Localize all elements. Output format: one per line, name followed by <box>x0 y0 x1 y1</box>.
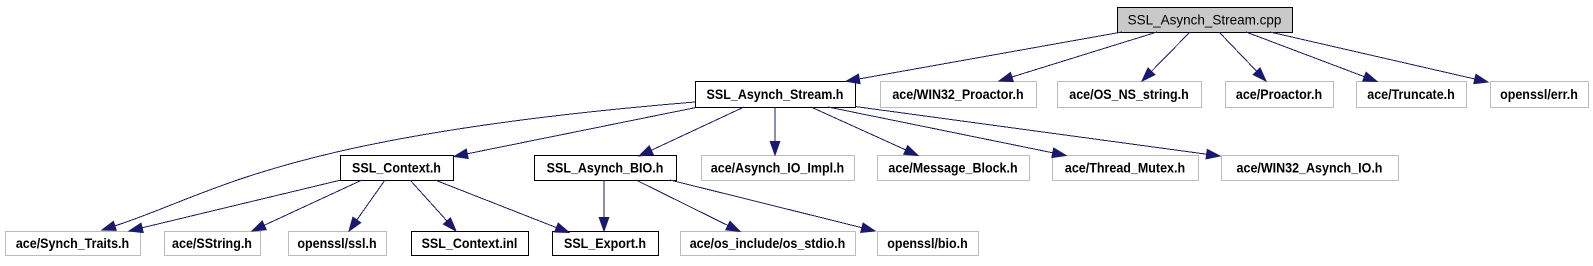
svg-text:ace/Truncate.h: ace/Truncate.h <box>1367 87 1455 102</box>
edge SSL_Asynch_BIO.h -> openssl/bio.h <box>670 180 875 232</box>
edge SSL_Asynch_Stream.cpp -> ace/Truncate.h <box>1246 32 1377 82</box>
edge SSL_Asynch_Stream.h -> ace/Asynch_IO_Impl.h <box>770 107 780 155</box>
edge SSL_Asynch_Stream.cpp -> ace/Proactor.h <box>1219 32 1266 81</box>
edge SSL_Asynch_Stream.h -> ace/Thread_Mutex.h <box>828 107 1066 158</box>
node SSL_Context.inl <box>412 232 529 256</box>
svg-text:ace/WIN32_Asynch_IO.h: ace/WIN32_Asynch_IO.h <box>1237 161 1383 176</box>
node ace/Thread_Mutex.h <box>1053 156 1199 181</box>
svg-text:openssl/err.h: openssl/err.h <box>1500 87 1578 102</box>
node ace/Truncate.h <box>1357 82 1467 108</box>
svg-text:ace/Thread_Mutex.h: ace/Thread_Mutex.h <box>1065 161 1185 176</box>
edge SSL_Asynch_Stream.h -> SSL_Asynch_BIO.h <box>639 107 744 156</box>
svg-text:ace/Asynch_IO_Impl.h: ace/Asynch_IO_Impl.h <box>711 161 844 176</box>
svg-text:ace/SString.h: ace/SString.h <box>172 236 252 251</box>
edge SSL_Asynch_Stream.h -> ace/Message_Block.h <box>811 107 918 156</box>
edge SSL_Asynch_BIO.h -> ace/os_include/os_stdio.h <box>636 180 740 232</box>
svg-text:ace/Proactor.h: ace/Proactor.h <box>1236 87 1322 102</box>
edge SSL_Context.h -> SSL_Context.inl <box>410 180 456 231</box>
svg-text:openssl/ssl.h: openssl/ssl.h <box>297 236 376 251</box>
edge SSL_Context.h -> SSL_Export.h <box>435 180 569 233</box>
svg-text:ace/OS_NS_string.h: ace/OS_NS_string.h <box>1069 87 1189 102</box>
edge SSL_Asynch_BIO.h -> SSL_Export.h <box>599 180 609 231</box>
node SSL_Asynch_Stream.h <box>696 82 856 108</box>
node ace/os_include/os_stdio.h <box>681 232 856 256</box>
svg-text:openssl/bio.h: openssl/bio.h <box>887 236 968 251</box>
svg-text:SSL_Asynch_Stream.cpp: SSL_Asynch_Stream.cpp <box>1128 13 1282 28</box>
edge SSL_Asynch_Stream.h -> ace/WIN32_Asynch_IO.h <box>855 107 1220 159</box>
svg-text:ace/WIN32_Proactor.h: ace/WIN32_Proactor.h <box>892 87 1023 102</box>
edge SSL_Asynch_Stream.h -> ace/Synch_Traits.h <box>102 102 695 230</box>
svg-text:SSL_Context.h: SSL_Context.h <box>352 161 441 176</box>
svg-text:ace/os_include/os_stdio.h: ace/os_include/os_stdio.h <box>690 236 846 251</box>
node openssl/err.h <box>1491 82 1589 108</box>
node ace/Message_Block.h <box>878 156 1030 181</box>
edge SSL_Asynch_Stream.cpp -> SSL_Asynch_Stream.h <box>846 32 1122 84</box>
svg-text:SSL_Asynch_Stream.h: SSL_Asynch_Stream.h <box>707 87 844 102</box>
edge SSL_Asynch_Stream.h -> SSL_Context.h <box>454 108 696 159</box>
node ace/OS_NS_string.h <box>1058 82 1202 108</box>
node SSL_Asynch_BIO.h <box>535 156 677 181</box>
node SSL_Context.h <box>341 156 454 181</box>
node SSL_Export.h <box>553 232 659 256</box>
edge SSL_Context.h -> openssl/ssl.h <box>349 180 385 231</box>
node ace/Proactor.h <box>1226 82 1334 108</box>
edge SSL_Asynch_Stream.cpp -> ace/WIN32_Proactor.h <box>999 32 1157 82</box>
node ace/Synch_Traits.h <box>6 232 141 256</box>
edge SSL_Asynch_Stream.cpp -> openssl/err.h <box>1270 32 1488 84</box>
edge SSL_Context.h -> ace/Synch_Traits.h <box>129 180 341 233</box>
node openssl/bio.h <box>878 232 979 256</box>
svg-text:ace/Synch_Traits.h: ace/Synch_Traits.h <box>16 236 129 251</box>
node openssl/ssl.h <box>289 232 387 256</box>
svg-text:SSL_Asynch_BIO.h: SSL_Asynch_BIO.h <box>547 161 664 176</box>
node ace/WIN32_Asynch_IO.h <box>1222 156 1399 181</box>
node ace/WIN32_Proactor.h <box>881 82 1037 108</box>
node ace/SString.h <box>165 232 261 256</box>
edge SSL_Context.h -> ace/SString.h <box>252 180 362 231</box>
edge SSL_Asynch_Stream.cpp -> ace/OS_NS_string.h <box>1142 32 1190 81</box>
node SSL_Asynch_Stream.cpp <box>1118 8 1293 33</box>
svg-text:SSL_Context.inl: SSL_Context.inl <box>422 236 518 251</box>
svg-text:ace/Message_Block.h: ace/Message_Block.h <box>888 161 1017 176</box>
node ace/Asynch_IO_Impl.h <box>702 156 855 181</box>
svg-text:SSL_Export.h: SSL_Export.h <box>564 236 646 251</box>
